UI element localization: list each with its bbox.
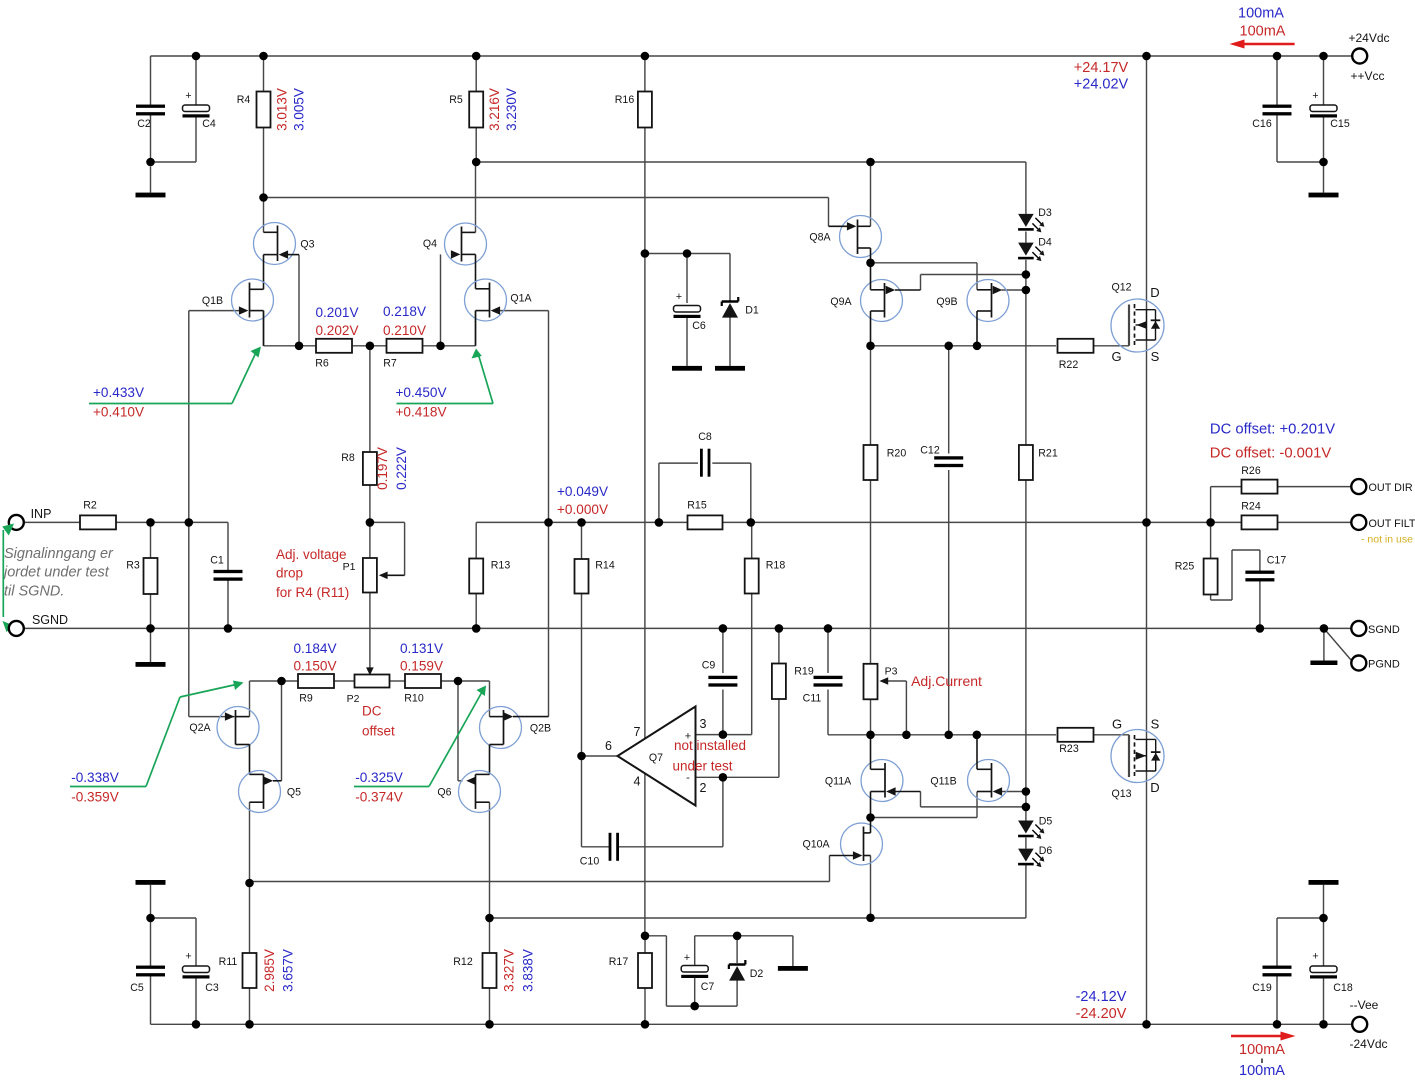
svg-text:R11: R11 xyxy=(219,956,238,968)
voltage label R9 blue xyxy=(293,641,336,656)
svg-text:-0.359V: -0.359V xyxy=(71,790,119,805)
wire Q11A gate jog y806 xyxy=(921,792,1026,807)
svg-text:P1: P1 xyxy=(343,561,356,573)
svg-text:+0.410V: +0.410V xyxy=(93,405,144,420)
svg-text:4: 4 xyxy=(634,775,641,789)
note text gray italic xyxy=(2,546,114,600)
resistor R24 xyxy=(1241,501,1277,530)
svg-text:SGND: SGND xyxy=(1368,624,1400,636)
resistor R26 xyxy=(1241,465,1277,494)
svg-text:R25: R25 xyxy=(1175,561,1195,573)
svg-text:3.327V: 3.327V xyxy=(502,949,517,992)
svg-text:Q2A: Q2A xyxy=(189,722,211,734)
capacitor C3 xyxy=(183,951,219,995)
resistor R21 xyxy=(1019,445,1058,480)
svg-text:D5: D5 xyxy=(1039,816,1053,828)
voltage label R4 blue xyxy=(292,88,307,131)
transistor Q3 xyxy=(254,223,315,290)
resistor R16 xyxy=(615,92,652,128)
potentiometer P3 xyxy=(864,664,898,700)
svg-text:-24Vdc: -24Vdc xyxy=(1349,1037,1387,1051)
voltage label R9 red xyxy=(293,659,336,674)
wire opamp pin2 row xyxy=(696,776,779,778)
svg-text:C6: C6 xyxy=(692,320,706,332)
svg-text:D4: D4 xyxy=(1038,237,1052,249)
svg-text:C9: C9 xyxy=(702,660,716,672)
green probe arrow +0.433V xyxy=(89,347,261,404)
voltage label R4 red xyxy=(275,88,290,131)
svg-text:S: S xyxy=(1151,349,1160,364)
wire C8 loop xyxy=(659,463,751,522)
svg-text:R12: R12 xyxy=(453,956,473,968)
svg-text:100mA: 100mA xyxy=(1240,24,1286,40)
wire R13 column xyxy=(475,594,477,629)
svg-text:R15: R15 xyxy=(687,500,707,512)
voltage label -0.359V red xyxy=(71,790,119,805)
ground under C6 xyxy=(672,366,702,371)
svg-text:DC offset: +0.201V: DC offset: +0.201V xyxy=(1210,422,1335,438)
wire R8 P1 column xyxy=(369,346,371,668)
svg-text:C7: C7 xyxy=(701,981,715,993)
led D6 xyxy=(1018,845,1052,867)
terminal OUT FILT xyxy=(1351,515,1415,530)
capacitor C18 xyxy=(1310,951,1353,995)
zener diode D2 xyxy=(729,960,764,981)
svg-text:R24: R24 xyxy=(1241,501,1261,513)
transistor Q10A xyxy=(802,818,882,866)
led D5 xyxy=(1018,816,1052,840)
transistor Q8A xyxy=(809,216,881,263)
resistor R23 xyxy=(1058,728,1094,755)
svg-text:R16: R16 xyxy=(615,94,635,106)
resistor R19 xyxy=(772,664,814,700)
svg-text:100mA: 100mA xyxy=(1238,6,1284,22)
svg-text:not installed: not installed xyxy=(674,738,746,753)
svg-text:D: D xyxy=(1150,285,1159,300)
wire bias row to R22 y346 xyxy=(871,345,1130,347)
wire Q1A source riser x475 xyxy=(475,311,477,346)
svg-text:D3: D3 xyxy=(1038,207,1052,219)
wire Q9B gate to LED rail y290 xyxy=(1002,289,1026,291)
wire Q10A source column xyxy=(870,856,872,918)
wire C16 C15 bottom link xyxy=(1277,114,1324,193)
wire Q1A gate to node x548 xyxy=(500,311,549,717)
wire R16 column xyxy=(644,56,646,936)
resistor R7 xyxy=(383,339,422,370)
wire Q11 sources y817 xyxy=(871,792,978,818)
capacitor C17 xyxy=(1245,555,1286,582)
svg-text:Q9B: Q9B xyxy=(936,296,957,308)
svg-text:jordet under test: jordet under test xyxy=(2,565,110,581)
svg-text:2: 2 xyxy=(700,781,707,795)
svg-text:S: S xyxy=(1151,717,1160,732)
svg-text:100mA: 100mA xyxy=(1239,1063,1285,1079)
ground above C5 xyxy=(136,880,166,885)
svg-text:R6: R6 xyxy=(315,358,329,370)
voltage label R10 red xyxy=(400,659,443,674)
wire C2 C4 bottom link xyxy=(151,114,197,193)
svg-text:- not in use: - not in use xyxy=(1361,534,1413,546)
current label bottom blue xyxy=(1239,1063,1285,1079)
voltage label R11 blue xyxy=(281,949,296,992)
resistor R15 xyxy=(687,500,722,530)
svg-text:+24Vdc: +24Vdc xyxy=(1348,31,1389,45)
voltage label DC offset red xyxy=(1210,446,1332,462)
resistor R9 xyxy=(298,674,334,705)
capacitor C19 xyxy=(1252,966,1291,994)
wire OUT DIR branch xyxy=(1211,487,1352,523)
svg-text:+: + xyxy=(1312,951,1318,963)
svg-text:Q7: Q7 xyxy=(649,752,663,764)
wire Q11B gate y791 xyxy=(1002,791,1026,793)
green probe arrow -0.338V xyxy=(70,681,244,787)
svg-text:+: + xyxy=(1312,90,1318,102)
svg-text:+0.049V: +0.049V xyxy=(557,484,608,499)
wire C15 top xyxy=(1323,56,1325,105)
wire R6 R7 row y346 xyxy=(299,345,476,347)
svg-text:C11: C11 xyxy=(803,693,822,705)
led D4 xyxy=(1018,237,1052,262)
svg-text:C2: C2 xyxy=(137,118,151,130)
voltage label +0.433V blue xyxy=(93,385,144,400)
svg-text:R26: R26 xyxy=(1241,465,1261,477)
svg-text:3.013V: 3.013V xyxy=(275,88,290,131)
potentiometer P2 xyxy=(347,667,390,705)
terminal -24Vdc xyxy=(1349,998,1387,1051)
svg-text:-24.12V: -24.12V xyxy=(1076,989,1127,1005)
svg-text:P2: P2 xyxy=(347,693,360,705)
capacitor C8 xyxy=(698,431,712,477)
wire Q6 gate riser x458 xyxy=(458,681,463,781)
svg-text:0.184V: 0.184V xyxy=(293,641,336,656)
wire R17 column lower xyxy=(644,936,646,1025)
svg-text:R17: R17 xyxy=(609,956,629,968)
wire P3 wiper column xyxy=(888,681,907,735)
wire Q3 gate drop x299 xyxy=(298,255,300,346)
resistor R25 xyxy=(1175,559,1218,595)
svg-text:0.222V: 0.222V xyxy=(394,447,409,490)
svg-text:+: + xyxy=(684,952,690,964)
wire R16 to C6 D1 y253 xyxy=(645,253,730,255)
svg-text:C4: C4 xyxy=(202,118,216,130)
green arrow INP SGND xyxy=(2,524,14,633)
voltage label +24.17V xyxy=(1074,60,1129,76)
svg-text:Q9A: Q9A xyxy=(830,296,852,308)
wire R17 top to C7 net xyxy=(645,936,695,1006)
svg-text:3.005V: 3.005V xyxy=(292,88,307,131)
wire opamp pin3 row xyxy=(696,734,752,736)
resistor R4 xyxy=(237,92,271,128)
svg-text:for R4 (R11): for R4 (R11) xyxy=(276,585,349,600)
current arrow bottom red xyxy=(1231,1032,1296,1041)
wire main rail x1146 xyxy=(1146,56,1148,1024)
capacitor C2 xyxy=(136,105,165,130)
capacitor C6 xyxy=(674,291,706,332)
ground above C18 xyxy=(1309,880,1339,885)
resistor R12 xyxy=(453,953,496,988)
capacitor C4 xyxy=(183,90,216,130)
resistor R17 xyxy=(609,953,652,988)
svg-text:Q13: Q13 xyxy=(1111,788,1131,800)
tick mark xyxy=(1261,1059,1263,1064)
wire R19 column xyxy=(778,628,780,777)
resistor R2 xyxy=(80,500,116,530)
capacitor C11 xyxy=(803,676,843,705)
voltage label -0.374V red xyxy=(355,790,403,805)
voltage label R10 blue xyxy=(400,641,443,656)
voltage label DC offset blue xyxy=(1210,422,1335,438)
voltage label +24.02V xyxy=(1074,77,1129,93)
opamp Q7 xyxy=(605,707,707,806)
mosfet Q12 xyxy=(1111,282,1164,365)
svg-text:Q5: Q5 xyxy=(287,787,301,799)
svg-text:Q4: Q4 xyxy=(423,238,437,250)
terminal PGND xyxy=(1351,656,1400,671)
svg-text:DC offset: -0.001V: DC offset: -0.001V xyxy=(1210,446,1332,462)
wire D2 bottom xyxy=(695,978,737,1006)
voltage label +0.410V red xyxy=(93,405,144,420)
capacitor C7 xyxy=(681,952,714,993)
svg-text:Q12: Q12 xyxy=(1111,282,1131,294)
svg-text:Signalinngang er: Signalinngang er xyxy=(4,546,114,562)
svg-text:C5: C5 xyxy=(130,982,144,994)
resistor R20 xyxy=(864,445,907,480)
svg-text:+24.02V: +24.02V xyxy=(1074,77,1129,93)
wire feedback row y522 xyxy=(476,522,1352,558)
wire LED D3 D4 column xyxy=(871,162,1026,290)
wire long row y881 to Q10A gate xyxy=(250,856,830,882)
svg-text:R2: R2 xyxy=(83,500,97,512)
current label bottom red xyxy=(1239,1042,1285,1058)
svg-text:under test: under test xyxy=(672,759,732,774)
svg-text:Adj.Current: Adj.Current xyxy=(911,673,982,689)
wire R5 to Q8A drain rail y162 xyxy=(476,161,870,163)
svg-text:++Vcc: ++Vcc xyxy=(1350,69,1384,83)
svg-text:+: + xyxy=(676,291,682,303)
resistor R6 xyxy=(315,339,352,370)
wire Q8A source to Q9 drains y263 xyxy=(871,263,978,290)
ground near C15 xyxy=(1309,193,1339,198)
red note not installed xyxy=(672,738,746,774)
wire C9 column xyxy=(722,628,724,734)
transistor Q4 xyxy=(423,223,487,289)
capacitor C16 xyxy=(1252,105,1291,130)
wire C6 column xyxy=(686,254,688,366)
voltage label R7 blue xyxy=(383,304,426,319)
ground right of D2 xyxy=(778,966,808,971)
wire R3 column xyxy=(150,522,152,628)
red note DC offset xyxy=(362,704,395,739)
svg-text:0.202V: 0.202V xyxy=(315,323,358,338)
svg-text:-24.20V: -24.20V xyxy=(1076,1006,1127,1022)
zener diode D1 xyxy=(722,297,759,318)
svg-text:3.216V: 3.216V xyxy=(487,88,502,131)
svg-text:D2: D2 xyxy=(750,968,764,980)
svg-text:0.197V: 0.197V xyxy=(375,447,390,490)
voltage label +0.418V red xyxy=(395,405,446,420)
svg-text:--Vee: --Vee xyxy=(1350,998,1379,1012)
wire Q8A drain riser xyxy=(870,162,872,226)
transistor Q11A xyxy=(825,735,921,818)
voltage label -24.12V blue xyxy=(1076,989,1127,1005)
voltage label R12 red xyxy=(502,949,517,992)
svg-text:2.985V: 2.985V xyxy=(262,949,277,992)
transistor Q2A xyxy=(189,707,259,775)
wire D1 column xyxy=(729,254,731,366)
wire R4 column xyxy=(263,56,265,232)
terminal +24Vdc xyxy=(1348,31,1389,83)
wire row y918 Q6 to LEDs xyxy=(490,864,1026,918)
resistor R18 xyxy=(745,559,786,594)
svg-text:-0.325V: -0.325V xyxy=(355,770,403,785)
wire PGND branch xyxy=(1324,628,1352,661)
svg-text:+: + xyxy=(185,951,191,963)
transistor Q5 xyxy=(239,771,302,813)
svg-text:C16: C16 xyxy=(1252,118,1272,130)
svg-text:R10: R10 xyxy=(404,693,424,705)
svg-text:0.201V: 0.201V xyxy=(315,305,358,320)
ground near C2 xyxy=(136,193,166,198)
transistor Q6 xyxy=(437,771,500,813)
svg-text:R14: R14 xyxy=(595,560,615,572)
svg-text:C18: C18 xyxy=(1333,982,1353,994)
wire R3 ground stem xyxy=(150,628,152,662)
svg-text:7: 7 xyxy=(634,725,641,739)
wire Q4 gate riser x440 xyxy=(440,254,442,345)
red note Adj Current xyxy=(911,673,982,689)
current label top red xyxy=(1240,24,1286,40)
svg-text:+24.17V: +24.17V xyxy=(1074,60,1129,76)
wire R20 P3 column xyxy=(870,346,872,735)
voltage label +0.049V blue xyxy=(557,484,608,499)
svg-text:C8: C8 xyxy=(698,431,712,443)
svg-text:+0.433V: +0.433V xyxy=(93,385,144,400)
voltage label -0.325V blue xyxy=(355,770,403,785)
wire Q1B source to R6 junction xyxy=(264,311,300,346)
label not in use yellow xyxy=(1361,534,1413,546)
svg-text:0.210V: 0.210V xyxy=(383,323,426,338)
svg-text:Q1B: Q1B xyxy=(202,295,223,307)
voltage label -0.338V blue xyxy=(71,770,119,785)
svg-text:+0.450V: +0.450V xyxy=(395,385,446,400)
svg-text:OUT DIR: OUT DIR xyxy=(1369,482,1413,494)
wire C19 C18 top link xyxy=(1277,885,1324,1025)
svg-text:-0.374V: -0.374V xyxy=(355,790,403,805)
green probe arrow -0.325V xyxy=(354,686,486,787)
svg-text:Adj. voltage: Adj. voltage xyxy=(276,547,347,562)
wire Q1B gate column x188 xyxy=(189,311,240,717)
svg-text:R19: R19 xyxy=(794,666,814,678)
svg-text:drop: drop xyxy=(276,566,303,581)
current label top blue xyxy=(1238,6,1284,22)
resistor R11 xyxy=(219,953,257,988)
green probe arrow +0.450V xyxy=(397,349,494,404)
voltage label +0.450V blue xyxy=(395,385,446,400)
terminal INP xyxy=(9,507,52,530)
wire R18 column xyxy=(751,522,753,734)
svg-text:R20: R20 xyxy=(887,448,907,460)
wire Q9A gate to LED rail y274 xyxy=(921,275,1026,291)
svg-text:offset: offset xyxy=(362,724,395,739)
wire C7 top to D2 to ground xyxy=(695,936,793,966)
transistor Q1A xyxy=(465,279,533,346)
svg-text:C15: C15 xyxy=(1330,118,1350,130)
wire C11 column xyxy=(827,628,829,734)
capacitor C12 xyxy=(920,445,963,468)
svg-text:Q2B: Q2B xyxy=(530,723,551,735)
wire +24V top rail xyxy=(151,55,1352,57)
svg-text:Q3: Q3 xyxy=(300,239,314,251)
voltage label R5 red xyxy=(487,88,502,131)
wire P1 top row xyxy=(370,522,405,575)
wire C1 column xyxy=(227,581,229,629)
svg-text:3.230V: 3.230V xyxy=(504,88,519,131)
voltage label R6 blue xyxy=(315,305,358,320)
svg-text:G: G xyxy=(1111,349,1121,364)
wire pin2 to C10 xyxy=(618,777,723,847)
capacitor C10 xyxy=(580,833,619,868)
svg-text:-: - xyxy=(686,772,690,784)
svg-text:Q11B: Q11B xyxy=(930,776,956,788)
wire C5 C3 top link xyxy=(151,885,197,1025)
transistor Q11B xyxy=(930,735,1009,802)
wire C10 left to pin6 column xyxy=(582,756,610,847)
voltage label +0.000V red xyxy=(557,502,608,517)
svg-text:0.150V: 0.150V xyxy=(293,659,336,674)
wire C4 top xyxy=(195,56,197,105)
wire R25 C17 zobel link xyxy=(1211,522,1260,628)
resistor R10 xyxy=(404,674,441,705)
svg-text:R7: R7 xyxy=(383,358,397,370)
ground under D1 xyxy=(715,366,745,371)
wire Q5 gate riser x281 xyxy=(281,681,283,781)
capacitor C5 xyxy=(130,966,165,994)
svg-text:+0.418V: +0.418V xyxy=(395,405,446,420)
red note Adj voltage drop xyxy=(276,547,349,600)
svg-text:D: D xyxy=(1150,780,1159,795)
wire -24V bottom rail xyxy=(151,1023,1352,1025)
ground under R3 xyxy=(136,662,166,667)
svg-text:3.838V: 3.838V xyxy=(521,949,536,992)
svg-text:Q8A: Q8A xyxy=(809,232,831,244)
current arrow top red xyxy=(1230,40,1295,49)
resistor R14 xyxy=(575,559,615,594)
svg-text:til SGND.: til SGND. xyxy=(4,584,64,600)
capacitor C9 xyxy=(702,660,738,687)
wire LED D5 D6 column xyxy=(1025,792,1027,849)
svg-text:3.657V: 3.657V xyxy=(281,949,296,992)
voltage label R5 blue xyxy=(504,88,519,131)
svg-text:+: + xyxy=(185,90,191,102)
wire INP row left xyxy=(23,522,229,570)
svg-text:DC: DC xyxy=(362,704,382,719)
svg-text:R8: R8 xyxy=(341,452,355,464)
svg-text:R3: R3 xyxy=(126,560,140,572)
svg-text:Q1A: Q1A xyxy=(510,293,532,305)
capacitor C1 xyxy=(210,555,242,581)
svg-text:PGND: PGND xyxy=(1368,658,1400,670)
voltage label R6 red xyxy=(315,323,358,338)
svg-text:D1: D1 xyxy=(745,305,759,317)
mosfet Q13 xyxy=(1111,717,1164,801)
svg-text:100mA: 100mA xyxy=(1239,1042,1285,1058)
resistor R13 xyxy=(469,559,510,594)
svg-text:C1: C1 xyxy=(210,555,224,567)
wire SGND row y628 xyxy=(23,627,1352,629)
svg-text:R23: R23 xyxy=(1059,743,1079,755)
svg-text:C10: C10 xyxy=(580,856,600,868)
resistor R22 xyxy=(1058,339,1094,371)
